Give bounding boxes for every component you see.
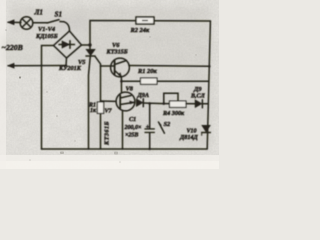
R4 rheostat bracket [164,93,178,103]
svg-text:Д814Д: Д814Д [179,134,199,141]
svg-text:1к: 1к [90,108,97,114]
resistor R1 box [97,102,103,113]
mains bottom wire with arrow [8,65,66,67]
resistor R2 inner tick [142,20,148,22]
junction dots [65,43,211,150]
wire V9 to right rail [202,103,207,105]
svg-text:V1-V4: V1-V4 [38,26,55,33]
paper background [0,0,219,169]
transistor V6 [111,58,130,77]
thyristor gate wire [95,56,101,66]
R3 wire from emitter node to right rail [122,80,209,82]
wire R4 to V9 [186,103,195,105]
wire node up and top rail [90,21,210,46]
svg-text:~220В: ~220В [2,43,23,52]
bridge V1-V4 diamond [54,31,82,58]
node R4 bracket [163,102,166,105]
V6 emitter wire down to V7 [120,77,122,93]
sensor switch S2 [159,122,165,133]
resistor R4 box [170,101,187,107]
svg-text:КД105Б: КД105Б [35,33,58,40]
wire lamp to switch [33,22,47,24]
svg-text:R1 20к: R1 20к [137,68,157,75]
wire S1 to bridge top [64,22,70,31]
svg-text:Д9А: Д9А [137,92,149,99]
switch S1 [47,20,59,23]
zener diode V10 [202,125,211,132]
svg-text:V7: V7 [105,109,113,115]
wire V8 to C1 node and R4 [143,102,163,105]
bottom rail [42,148,208,150]
svg-text:V8: V8 [126,86,134,93]
wire node to R4 [164,103,170,105]
right rail [207,21,210,149]
wire to V7 base [101,100,117,102]
V7 collector wire down to bottom rail [122,111,124,150]
node C1 top [148,102,151,105]
svg-text:200,0×: 200,0× [124,125,143,131]
scan specks [60,152,64,155]
thyristor V5 [86,49,95,55]
svg-text:R4 300к: R4 300к [162,110,185,117]
diode V9 [195,100,202,108]
wire bridge left corner to left rail [42,46,54,150]
arrow left top [8,20,15,25]
lamp L1 [20,17,33,30]
node emitter-R3 [120,80,123,83]
svg-text:С1: С1 [129,116,136,123]
svg-text:S1: S1 [55,11,63,19]
svg-text:×25В: ×25В [125,133,138,139]
resistor R2 box [136,17,154,24]
capacitor C1 bottom lead [149,133,151,149]
svg-text:КТ361Б: КТ361Б [104,121,111,146]
resistor R3 box [141,78,158,84]
svg-text:В,СЛ: В,СЛ [190,94,206,100]
wire mains top to lamp [8,21,21,23]
svg-text:Л1: Л1 [34,9,44,17]
wire bridge bottom corner down to mains [65,58,68,66]
capacitor C1 wire down from node [149,103,151,128]
svg-text:R2 24к: R2 24к [130,27,150,34]
transistor V7 [116,92,135,111]
svg-text:Д9: Д9 [193,86,202,93]
V6 collector wire to right rail [129,65,210,68]
diode V8 [136,99,143,107]
node C1 bottom rail [149,148,151,150]
capacitor C1 plates [145,128,154,130]
svg-text:+: + [146,124,150,131]
gate node wire to V6 base [101,65,115,67]
wire bridge right corner to node [82,44,91,46]
thyristor cathode wire down [89,56,91,149]
bridge inner diode [59,44,75,46]
node mains-bridge bottom [65,64,67,66]
svg-text:КУ201К: КУ201К [58,65,82,72]
gate node wire down through R1 [100,66,102,149]
node bridge-thyristor [88,43,91,46]
svg-text:КТ315Б: КТ315Б [106,49,128,56]
svg-text:S2: S2 [164,121,172,128]
